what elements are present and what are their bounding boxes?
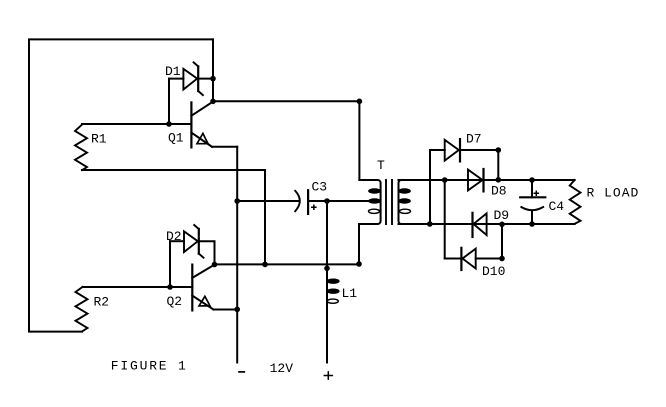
wire R1 bottom cross-coupling bbox=[82, 170, 265, 264]
wire Q2 emitter to minus rail bbox=[214, 309, 238, 311]
capacitor C3 bbox=[295, 190, 316, 214]
junction D10 anode bbox=[499, 256, 505, 262]
diode D8 bbox=[468, 169, 484, 191]
wire top-rail branch down to D10 bbox=[444, 180, 446, 259]
diode D10 bbox=[445, 248, 502, 270]
wire C3 right plate to center-tap node bbox=[308, 200, 327, 202]
junction D7/D8 cathode on plus rail bbox=[496, 177, 502, 183]
junction R1 cross-coupling on collector rail bbox=[262, 262, 268, 268]
diode D7 bbox=[430, 139, 498, 161]
wire R1 top to Q1 base bbox=[82, 123, 191, 125]
junction D7 cathode top bbox=[496, 147, 502, 153]
junction D9 anode bbox=[499, 222, 505, 228]
wire emitter node to C3 bbox=[237, 200, 299, 202]
junction Q1 collector node bbox=[210, 99, 216, 105]
transformer T core bbox=[386, 180, 392, 224]
diode D9 bbox=[473, 213, 487, 237]
junction primary top corner bbox=[357, 99, 363, 105]
svg-text:T: T bbox=[377, 158, 385, 173]
svg-text:12V: 12V bbox=[270, 361, 294, 376]
wire transformer primary-top drop bbox=[358, 101, 360, 180]
resistor R2 bbox=[76, 287, 88, 332]
junction L1 top blob bbox=[324, 266, 330, 272]
junction D1 anode / Q1 base bbox=[166, 121, 172, 127]
svg-text:R1: R1 bbox=[91, 132, 107, 147]
junction primary bottom corner bbox=[356, 261, 362, 267]
wire Q2 collector to transformer primary bottom bbox=[215, 263, 360, 265]
svg-text:D9: D9 bbox=[494, 208, 510, 223]
svg-text:D10: D10 bbox=[482, 264, 505, 279]
svg-text:C3: C3 bbox=[312, 180, 328, 195]
svg-text:D2: D2 bbox=[166, 229, 182, 244]
junction C3 right / center tap / L1 bbox=[324, 198, 330, 204]
wire Q1 emitter to minus rail bbox=[212, 146, 237, 148]
diode D2 (zener clamp) bbox=[170, 225, 215, 265]
wire R2 top to Q2 base bbox=[83, 286, 193, 288]
inductor L1 bbox=[327, 201, 339, 363]
junction Q2 collector node bbox=[212, 262, 218, 268]
wire outer feedback loop (top + left + bottom-left) bbox=[29, 39, 213, 331]
minus supply terminal bbox=[239, 371, 244, 373]
svg-text:FIGURE 1: FIGURE 1 bbox=[111, 358, 188, 373]
svg-text:Q1: Q1 bbox=[168, 131, 184, 146]
junction C4 top bbox=[529, 177, 535, 183]
resistor R LOAD bbox=[570, 180, 581, 224]
svg-text:L1: L1 bbox=[342, 286, 358, 301]
diode D1 (zener clamp) bbox=[169, 62, 213, 95]
wire D7 cathode drop to plus rail bbox=[497, 150, 499, 180]
junction secondary bottom / D7 branch bbox=[427, 221, 433, 227]
transformer T secondary winding bbox=[399, 180, 431, 224]
svg-text:D1: D1 bbox=[165, 64, 181, 79]
wire secondary bottom rail to load (through D9) bbox=[399, 223, 575, 225]
resistor R1 bbox=[75, 125, 87, 171]
wire D2 anode to base node bbox=[169, 241, 171, 287]
svg-text:D7: D7 bbox=[466, 132, 482, 147]
junction D1 cathode on collector riser bbox=[210, 76, 216, 82]
wire secondary top rail to load (through D8) bbox=[399, 179, 575, 181]
capacitor C4 bbox=[520, 180, 545, 224]
transformer T primary winding bbox=[359, 180, 381, 224]
svg-text:C4: C4 bbox=[549, 199, 565, 214]
wire D9/D10 anode vertical bbox=[501, 224, 503, 258]
svg-text:R2: R2 bbox=[94, 295, 110, 310]
wire transformer primary-bottom riser bbox=[358, 224, 360, 264]
transistor Q1 bbox=[191, 102, 213, 148]
svg-text:R LOAD: R LOAD bbox=[587, 186, 640, 201]
wire center tap to transformer bbox=[327, 200, 374, 202]
junction D2 anode / Q2 base bbox=[167, 284, 173, 290]
wire D1 anode to base node bbox=[168, 79, 170, 124]
wire vertical from top loop down to Q1 collector node bbox=[212, 39, 214, 101]
svg-text:D8: D8 bbox=[491, 184, 507, 199]
junction Q2 emitter on minus rail bbox=[234, 307, 240, 313]
wire emitter rail down to minus terminal bbox=[236, 147, 238, 363]
junction emitter rail / C3 left bbox=[234, 198, 240, 204]
svg-text:Q2: Q2 bbox=[167, 294, 183, 309]
junction top rail / D10 branch bbox=[442, 177, 448, 183]
wire Q1 collector to transformer primary top bbox=[213, 100, 359, 102]
junction C4 bottom bbox=[529, 221, 535, 227]
transistor Q2 bbox=[192, 265, 214, 311]
plus supply terminal bbox=[324, 372, 332, 379]
wire bridge left vertical bbox=[429, 150, 431, 224]
